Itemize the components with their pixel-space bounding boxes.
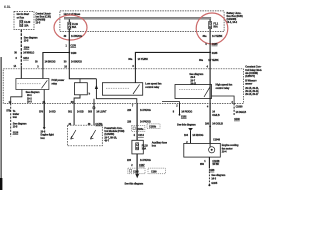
- relay coil low speed: [79, 79, 81, 83]
- wire exit LG/VT: [93, 99, 95, 104]
- relay PCM power relay: [16, 79, 49, 90]
- svg-text:14 BK/OG: 14 BK/OG: [71, 61, 82, 64]
- svg-text:C167: C167: [139, 164, 145, 167]
- svg-text:See this diagram: See this diagram: [125, 182, 144, 185]
- svg-text:6.8L: 6.8L: [4, 5, 11, 9]
- svg-text:C168: C168: [133, 170, 139, 173]
- svg-text:control relay: control relay: [145, 86, 160, 89]
- connector C103a (dashed box): [132, 125, 145, 131]
- svg-text:S135: S135: [212, 52, 218, 55]
- svg-text:S140: S140: [234, 118, 240, 121]
- auxiliary fuse box: [132, 140, 143, 154]
- svg-text:14 OG/LB: 14 OG/LB: [212, 122, 223, 125]
- PCM driver 2: [90, 130, 95, 139]
- wire relay output: [43, 90, 45, 104]
- wire 14 OG/LB from CCRM: [209, 103, 211, 143]
- connector C103b (dashed box): [147, 124, 160, 129]
- wire to DG/LB exit: [212, 96, 235, 103]
- svg-text:14 YE/BK: 14 YE/BK: [212, 35, 223, 38]
- svg-text:C169: C169: [151, 170, 157, 173]
- svg-text:S128: S128: [13, 131, 19, 134]
- svg-text:relay: relay: [52, 82, 58, 85]
- wire relay coil return: [11, 90, 22, 104]
- wire 14 DB: [73, 103, 75, 125]
- svg-text:50A: 50A: [72, 26, 77, 29]
- wire W2 inside CCRM: [69, 69, 96, 79]
- relay high speed fan control: [175, 85, 212, 99]
- off-page arrow down: [135, 174, 139, 179]
- svg-text:14 RD: 14 RD: [49, 110, 56, 113]
- svg-text:14 PK/OG: 14 PK/OG: [140, 109, 151, 112]
- wire into low speed relay: [134, 69, 136, 83]
- svg-text:box: box: [41, 137, 46, 140]
- svg-text:14 PK/OG: 14 PK/OG: [140, 121, 151, 124]
- svg-text:C103a: C103a: [136, 128, 144, 131]
- wire W3 through relay: [209, 69, 211, 104]
- svg-text:C270: C270: [70, 44, 76, 47]
- connector C169 (dashed box): [148, 168, 165, 174]
- svg-text:C1090: C1090: [236, 106, 244, 109]
- svg-text:14 WH/LG: 14 WH/LG: [23, 52, 34, 55]
- wire to PK/OG output: [96, 79, 136, 104]
- wire trailer feed (dashed): [10, 103, 12, 136]
- splice S100: [68, 52, 70, 54]
- svg-text:13-5: 13-5: [36, 21, 41, 24]
- wire W1 inside CCRM: [20, 69, 22, 79]
- svg-text:OG/LB: OG/LB: [212, 114, 220, 117]
- wire 14 LG/VT: [93, 103, 95, 125]
- splice dot: [209, 126, 211, 128]
- wire branch inside CCRM: [42, 69, 44, 79]
- svg-text:14 BK/OG: 14 BK/OG: [45, 61, 56, 64]
- svg-text:14 YE/BK: 14 YE/BK: [138, 58, 149, 61]
- wire 14 DG/LB stub: [233, 103, 235, 116]
- node arrow: [95, 85, 98, 89]
- PCM driver 1: [71, 130, 76, 139]
- highlight ellipse left: [54, 15, 87, 40]
- PCM box (dashed): [67, 125, 102, 146]
- svg-text:14 PK/OG: 14 PK/OG: [181, 110, 192, 113]
- svg-text:15A: 15A: [24, 24, 29, 27]
- splice S135: [209, 52, 211, 54]
- svg-text:30A: 30A: [142, 148, 147, 151]
- svg-text:14-3: 14-3: [211, 177, 216, 180]
- svg-text:13-5: 13-5: [24, 40, 29, 43]
- svg-text:10 BK: 10 BK: [212, 163, 219, 166]
- wire branch to low speed relay: [135, 52, 210, 68]
- svg-text:S102: S102: [181, 115, 187, 118]
- off-page arrow into fan feed: [188, 128, 193, 131]
- fuse box BJB (dashed): [60, 11, 224, 32]
- svg-text:(12B577): (12B577): [245, 75, 255, 78]
- svg-text:13-5: 13-5: [13, 126, 18, 129]
- fuse F1.1 50A: [209, 19, 211, 21]
- wire ground 10 BK: [208, 157, 210, 168]
- wire branch to pin 3: [43, 53, 69, 70]
- svg-text:control relay: control relay: [216, 87, 231, 90]
- CCRM box (dashed): [3, 69, 243, 104]
- svg-text:C103b: C103b: [149, 126, 157, 129]
- svg-text:S213: S213: [23, 57, 29, 60]
- connector C168 (dashed box): [128, 168, 145, 174]
- svg-text:14 BK/OG: 14 BK/OG: [71, 35, 82, 38]
- scan edge artifact: [1, 57, 2, 190]
- svg-text:tow: tow: [13, 116, 17, 119]
- svg-text:14 PK/OG: 14 PK/OG: [140, 159, 151, 162]
- svg-text:ameor: ameor: [245, 83, 252, 86]
- engine cooling fan motor box: [184, 143, 221, 157]
- svg-text:49-7: 49-7: [104, 140, 109, 143]
- svg-text:30a: 30a: [128, 58, 133, 61]
- wire W2 from fuse F1.19 down: [68, 29, 70, 69]
- svg-text:or Run: or Run: [17, 16, 25, 19]
- wire to S102 exit: [162, 102, 180, 104]
- ground G105: [208, 184, 210, 186]
- wire W3 from fuse F1.1 down: [209, 29, 211, 69]
- fuse F1.19 50A: [68, 19, 70, 22]
- wire to S102: [179, 103, 181, 114]
- fuse box CJB (dashed): [14, 11, 34, 29]
- highlight ellipse right: [196, 13, 228, 44]
- svg-text:S106: S106: [209, 169, 215, 172]
- fuse F2.30 15A: [20, 20, 23, 26]
- wire exit DB: [74, 95, 80, 104]
- wire dashed to ground: [208, 172, 210, 186]
- svg-text:14 DG/LB: 14 DG/LB: [236, 111, 247, 114]
- svg-text:C214: C214: [138, 134, 144, 137]
- svg-text:C135: C135: [212, 43, 218, 46]
- svg-text:29-4: 29-4: [222, 151, 227, 154]
- svg-text:S204: S204: [24, 46, 30, 49]
- svg-text:50A: 50A: [213, 26, 218, 29]
- fuse F1.10 30A: [136, 143, 139, 150]
- svg-text:See this diagram: See this diagram: [177, 123, 196, 126]
- svg-text:14 LG/VT: 14 LG/VT: [96, 110, 107, 113]
- wire 14 RD/OG: [190, 131, 192, 144]
- wire 14 RD: [43, 103, 45, 127]
- svg-text:S100: S100: [71, 52, 77, 55]
- wire W1 from CJB fuse down: [20, 30, 22, 66]
- svg-text:G105: G105: [211, 182, 217, 185]
- svg-text:29-11: 29-11: [190, 82, 197, 85]
- wire 14 PK/OG main: [136, 103, 138, 140]
- svg-text:14 RD/OG: 14 RD/OG: [192, 134, 203, 137]
- svg-text:29-15, 29-17: 29-15, 29-17: [245, 93, 259, 96]
- wire 14 PK/OG lower: [136, 154, 138, 174]
- relay low speed fan control: [102, 83, 142, 96]
- motor M: [209, 147, 215, 153]
- svg-text:13-1, 13-2: 13-1, 13-2: [227, 21, 238, 24]
- svg-text:C1046: C1046: [213, 139, 221, 142]
- bus bar: [64, 17, 211, 19]
- svg-text:14 DB: 14 DB: [77, 110, 84, 113]
- svg-text:box: box: [152, 145, 157, 148]
- svg-text:29-3: 29-3: [27, 100, 32, 103]
- svg-text:14 YE/BK: 14 YE/BK: [208, 59, 219, 62]
